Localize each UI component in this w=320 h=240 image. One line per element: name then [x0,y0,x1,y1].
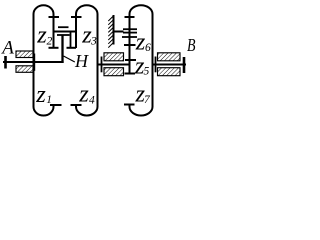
gear z5 foot bar [125,73,136,75]
gear housing capsule 3 (z6/z5/z7 block) [130,5,153,115]
gear z4 mesh tick [71,104,82,106]
coupling bars on sun shaft [123,28,137,30]
gear housing capsule 2 (z3/z4 block) [76,5,98,115]
svg-text:z: z [35,81,46,108]
svg-text:z: z [78,81,89,108]
gear z2 mesh tick [49,16,60,18]
wall shaft stub [114,31,124,33]
bearing A lower block [16,66,33,73]
svg-text:4: 4 [89,95,95,107]
coupling upper bar [58,26,69,28]
mid bearing lower block [104,68,124,76]
bearing B upper block [158,53,181,61]
gear z3 mesh tick [71,16,82,18]
mid bearing upper block [104,53,124,61]
planet gear cap [57,34,70,36]
shaft B end bar [183,57,186,73]
planet gear stem [61,35,63,63]
bearing B lower block [158,68,181,76]
svg-text:6: 6 [145,42,151,54]
svg-text:2: 2 [47,36,53,48]
planet foot bar [49,47,59,49]
svg-text:1: 1 [46,94,52,106]
frame wall hatching [108,17,113,48]
svg-text:3: 3 [90,36,97,48]
svg-text:7: 7 [144,94,151,106]
planet shaft between capsules [54,31,77,33]
gear housing capsule 1 (z2/z1 block) [34,5,54,115]
shaft A [3,61,64,63]
gear cap z6 top [122,36,137,38]
svg-text:5: 5 [144,66,150,78]
mid bearing pin [101,57,103,73]
gear z6 foot bar [124,44,136,46]
bearing B pin [155,57,157,73]
gear z5 tick [125,59,136,61]
frame wall [113,15,115,45]
shaft B [153,63,187,65]
bearing A pin [33,54,35,71]
bearing A upper block [16,51,33,58]
gear z7 tick [124,104,135,106]
gear z1 mesh tick [50,104,62,106]
intermediate shaft [98,63,130,65]
svg-text:A: A [0,38,14,59]
second planet stem [70,32,72,48]
shaft A end bar [4,56,7,69]
gear z6 mesh tick [125,16,135,18]
svg-text:H: H [74,51,89,71]
leader to H [64,56,75,62]
svg-text:B: B [187,35,196,55]
